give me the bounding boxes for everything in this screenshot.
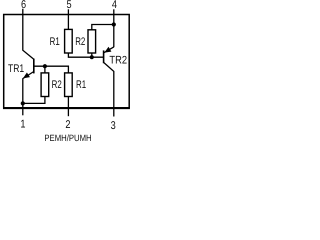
transistor TR2 emitter with arrow [104,47,114,53]
svg-text:PEMH/PUMH: PEMH/PUMH [44,133,91,143]
wire lower R1 to pin 2 [67,96,69,116]
svg-text:R2: R2 [75,36,85,48]
node pin4 / R2 junction [112,22,116,26]
svg-text:4: 4 [112,0,117,11]
transistor TR2 base bar [103,50,105,63]
svg-text:R1: R1 [76,79,86,91]
svg-text:2: 2 [65,119,70,131]
node emitter rail junction [21,101,25,105]
wire top R2 top to pin 4 node [92,25,114,30]
wire top base rail to TR2 [68,53,103,57]
svg-text:3: 3 [111,120,116,132]
wire TR1 emitter to pin 1 [22,78,24,115]
wire node to lower R2 top [44,66,46,73]
resistor R2 (lower) box [41,73,49,97]
svg-text:6: 6 [21,0,26,11]
package outline bottom edge (thicker) [3,107,130,109]
transistor TR1 emitter with arrow [23,72,34,79]
resistor R1 (lower) box [65,73,73,97]
wire pin 5 to top R1 [67,9,69,29]
wire emitter rail to lower R2 bottom [23,96,45,103]
svg-text:TR1: TR1 [8,63,24,75]
resistor R2 (top) box [88,30,96,53]
svg-text:1: 1 [20,119,25,131]
resistor R1 (top) box [65,29,73,53]
package outline border [4,15,130,108]
svg-text:R1: R1 [50,36,60,48]
node TR1 base / R2 junction [43,64,47,68]
svg-text:TR2: TR2 [109,55,127,67]
wire pin 6 to TR1 collector [23,9,34,59]
svg-text:5: 5 [67,0,72,11]
node R2 / base rail junction [90,55,94,59]
svg-text:R2: R2 [52,79,62,91]
transistor TR1 base bar [33,59,35,74]
wire top R2 bottom to rail [91,53,93,57]
wire TR1 base to lower R1 [34,66,68,73]
transistor TR2 collector [104,62,114,116]
wire pin 4 to TR2 emitter [113,9,115,47]
